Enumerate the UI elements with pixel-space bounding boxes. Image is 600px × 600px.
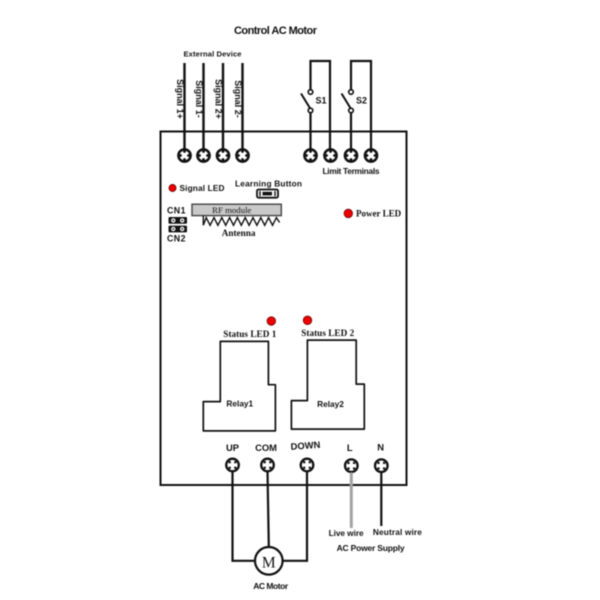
relay Relay2 xyxy=(291,340,364,429)
terminal limit 2 xyxy=(324,149,336,161)
terminal limit 1 xyxy=(304,149,316,161)
wire signal 1+ xyxy=(183,63,185,150)
svg-text:RF module: RF module xyxy=(212,205,251,215)
device enclosure xyxy=(161,132,407,486)
terminal signal 1- xyxy=(197,149,209,161)
svg-text:L: L xyxy=(347,442,353,453)
svg-text:S2: S2 xyxy=(356,96,367,106)
svg-text:CN2: CN2 xyxy=(167,234,186,244)
wire COM to motor xyxy=(268,471,269,547)
svg-text:Control AC Motor: Control AC Motor xyxy=(234,25,318,37)
terminal signal 2+ xyxy=(217,149,229,161)
svg-text:Relay2: Relay2 xyxy=(317,399,344,409)
terminal signal 1+ xyxy=(178,149,190,161)
wire UP to motor xyxy=(233,471,256,561)
terminal L xyxy=(345,459,358,472)
LED signal xyxy=(169,184,176,191)
svg-text:Status LED 1: Status LED 1 xyxy=(223,329,276,339)
svg-text:Signal 2-: Signal 2- xyxy=(233,80,243,118)
motor M xyxy=(255,547,283,575)
terminal N xyxy=(375,459,388,472)
antenna xyxy=(203,216,279,226)
wire S2 to terminal xyxy=(350,113,352,149)
terminal DOWN xyxy=(301,459,314,472)
svg-text:M: M xyxy=(262,555,276,572)
svg-text:N: N xyxy=(377,441,384,452)
connector CN2 xyxy=(169,226,188,233)
svg-text:S1: S1 xyxy=(316,96,327,106)
terminal COM xyxy=(261,459,274,472)
svg-text:COM: COM xyxy=(255,442,277,453)
LED power xyxy=(344,209,353,218)
svg-text:Live wire: Live wire xyxy=(329,528,364,538)
wire signal 2- xyxy=(241,63,243,150)
svg-text:Signal 2+: Signal 2+ xyxy=(214,79,224,119)
svg-text:Status LED 2: Status LED 2 xyxy=(301,328,354,338)
wire live gray xyxy=(350,473,353,529)
svg-text:CN1: CN1 xyxy=(167,206,186,216)
wire S1 loop xyxy=(311,61,331,149)
svg-text:Relay1: Relay1 xyxy=(226,399,253,409)
svg-text:UP: UP xyxy=(226,442,239,453)
svg-text:Limit Terminals: Limit Terminals xyxy=(323,166,380,176)
svg-text:External Device: External Device xyxy=(184,49,242,58)
wire signal 2+ xyxy=(222,63,224,150)
wire DOWN to motor xyxy=(283,471,307,561)
svg-text:Antenna: Antenna xyxy=(222,228,256,238)
svg-text:Learning Button: Learning Button xyxy=(235,179,302,189)
svg-text:Signal LED: Signal LED xyxy=(180,183,225,193)
svg-text:AC Motor: AC Motor xyxy=(253,581,289,591)
LED status 1 xyxy=(267,317,276,326)
terminal limit 3 xyxy=(345,149,357,161)
terminal UP xyxy=(226,459,239,472)
switch S1 xyxy=(301,90,313,113)
wire S1 to terminal xyxy=(309,113,311,149)
svg-text:AC Power Supply: AC Power Supply xyxy=(337,543,405,553)
wire S2 loop xyxy=(351,61,371,149)
switch S2 xyxy=(342,90,354,113)
svg-text:Neutral wire: Neutral wire xyxy=(373,527,422,537)
svg-text:Signal 1+: Signal 1+ xyxy=(175,79,185,119)
terminal limit 4 xyxy=(365,149,377,161)
button learning xyxy=(257,190,278,198)
svg-text:Signal 1-: Signal 1- xyxy=(194,80,204,118)
wire signal 1- xyxy=(202,63,204,150)
svg-text:Power LED: Power LED xyxy=(356,209,402,219)
svg-text:DOWN: DOWN xyxy=(290,439,321,452)
module RF xyxy=(192,204,281,215)
terminal signal 2- xyxy=(236,149,248,161)
connector CN1 xyxy=(169,217,188,224)
LED status 2 xyxy=(303,316,312,325)
wire neutral xyxy=(380,473,382,527)
relay Relay1 xyxy=(203,341,275,431)
